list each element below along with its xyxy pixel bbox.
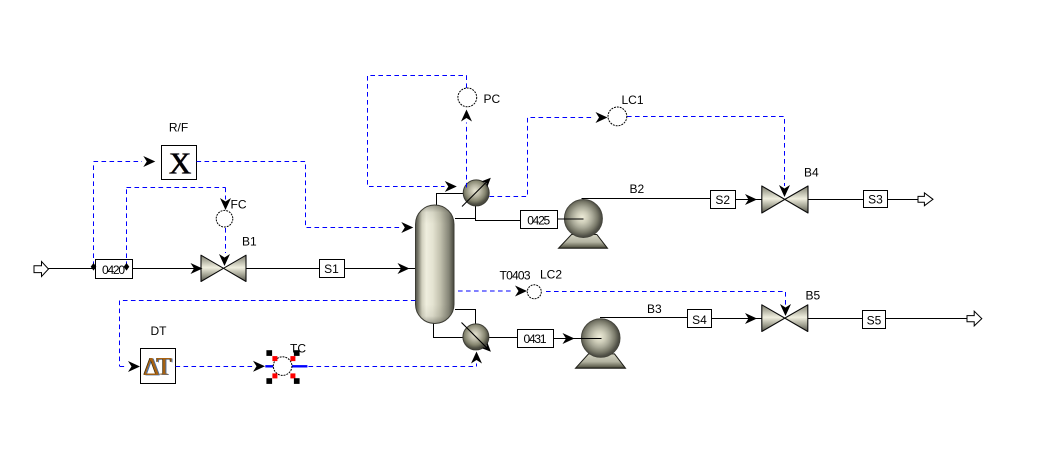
arrow into multiplier R/F <box>143 156 155 167</box>
svg-text:S2: S2 <box>715 193 730 207</box>
wire valve B1 to tag S1 <box>246 268 319 270</box>
signal wire controller PC to condenser <box>368 76 467 187</box>
svg-text:B5: B5 <box>806 289 821 303</box>
tag box 0431 <box>518 330 554 348</box>
tag box S5 <box>863 311 886 329</box>
reboiler duty arrow <box>462 323 489 350</box>
reboiler heat exchanger circle <box>463 324 489 350</box>
svg-text:S1: S1 <box>324 262 339 276</box>
svg-text:LC2: LC2 <box>540 268 562 282</box>
svg-text:B2: B2 <box>630 182 645 196</box>
node tap diamond at 0420 left <box>91 263 97 271</box>
svg-text:TC: TC <box>290 342 306 356</box>
svg-text:X: X <box>169 146 191 181</box>
valve B1 bowtie <box>201 255 246 281</box>
svg-text:DT: DT <box>151 324 168 338</box>
wire S1 to column <box>344 268 416 270</box>
arrow into reboiler bottom from TC <box>471 352 482 364</box>
signal wire multiplier R/F to column <box>197 162 402 228</box>
arrow into controller PC bottom <box>461 110 472 122</box>
wire condenser outlet junction <box>476 206 521 221</box>
wire valve B4 to tag S3 <box>808 199 863 201</box>
wire 0431 to pump P2 <box>553 338 602 340</box>
svg-text:PC: PC <box>484 92 501 106</box>
arrow into valve B1 top from FC <box>219 254 230 266</box>
svg-text:S4: S4 <box>692 313 707 327</box>
svg-text:ΔT: ΔT <box>143 354 172 381</box>
arrow into valve B1 <box>191 263 203 274</box>
arrow into controller TC <box>253 361 265 372</box>
wire valve B5 to tag S5 <box>808 318 863 320</box>
svg-text:S3: S3 <box>868 193 883 207</box>
svg-text:0431: 0431 <box>524 332 547 346</box>
pump P2 sphere <box>581 319 620 358</box>
arrow into column feed <box>398 263 410 274</box>
svg-text:0420: 0420 <box>102 263 125 277</box>
wire S4 to valve B5 <box>712 318 763 320</box>
svg-text:T0403: T0403 <box>500 269 531 283</box>
label delta-T in DT block <box>143 353 173 381</box>
signal wire controller LC2 to valve B5 <box>546 292 786 306</box>
wire pump P1 outlet B2 to tag S2 <box>582 198 711 200</box>
condenser heat exchanger circle <box>463 180 489 206</box>
pump P1 base <box>559 235 608 249</box>
controller circle FC <box>216 210 233 227</box>
svg-text:B1: B1 <box>242 235 257 249</box>
multiplier block R/F <box>162 146 197 180</box>
arrow into valve B4 <box>745 194 757 205</box>
signal wire column to controller LC2 <box>458 290 514 292</box>
node tap diamond at 0420 right <box>124 263 130 271</box>
signal wire DT block to controller TC <box>176 366 254 368</box>
wire 0420 to valve B1 <box>132 268 202 270</box>
arrow into valve B4 top from LC1 <box>779 185 790 197</box>
arrow into condenser from PC <box>445 181 457 192</box>
bottom product outlet block arrow <box>967 311 982 326</box>
tag box 0420 <box>96 260 133 279</box>
wire stub 0431 into pump P2 center <box>553 338 602 340</box>
signal wire 0420 to multiplier R/F <box>94 162 143 267</box>
signal wire controller LC1 to valve B4 <box>627 117 785 187</box>
arrow into pump P2 <box>563 333 575 344</box>
wire reboiler outlet to tag 0431 <box>489 337 517 339</box>
wire boilup return column to reboiler top <box>455 310 476 325</box>
svg-text:B3: B3 <box>647 302 662 316</box>
wire 0425 to pump P1 <box>558 218 584 220</box>
arrowheads on signal lines <box>128 110 791 373</box>
wire S5 to bottom product arrow <box>886 318 968 320</box>
feed inlet block arrow <box>34 262 49 277</box>
arrow into controller LC2 <box>515 286 527 297</box>
svg-text:0425: 0425 <box>527 214 550 228</box>
DT block <box>141 349 176 384</box>
wire column overhead vapor to condenser <box>437 194 464 207</box>
svg-text:R/F: R/F <box>169 121 188 135</box>
valve B5 bowtie <box>762 305 808 332</box>
tag box S4 <box>688 310 712 328</box>
pump P2 base <box>576 354 626 368</box>
arrow into controller FC top <box>220 198 231 210</box>
wire S2 to valve B4 <box>735 199 762 201</box>
signal wire condenser to controller PC <box>466 123 468 188</box>
arrow into DT block <box>128 361 140 372</box>
svg-text:FC: FC <box>231 198 247 212</box>
arrowheads on flow lines <box>191 194 758 344</box>
arrow into controller LC1 <box>596 112 608 123</box>
signal wire controller FC to valve B1 <box>225 228 227 253</box>
wire pump P2 outlet B3 to tag S4 <box>600 317 688 319</box>
label X in multiplier block <box>168 145 192 180</box>
tag box S3 <box>864 191 888 208</box>
controller circle LC2 <box>527 285 541 299</box>
signal wire 0420 to controller FC <box>127 188 226 267</box>
svg-text:S5: S5 <box>867 313 882 327</box>
condenser duty arrow <box>462 180 489 207</box>
top product outlet block arrow <box>918 193 933 206</box>
tag box S2 <box>711 191 736 209</box>
signal wire controller TC to reboiler <box>309 364 477 367</box>
wire feed line into tag 0420 <box>49 268 96 270</box>
signal wire column tray T0403 to DT block <box>120 301 416 367</box>
arrow into valve B5 <box>745 313 757 324</box>
controller circle LC1 <box>608 107 627 126</box>
arrow into column from R/F <box>401 222 413 233</box>
tag box 0425 <box>521 211 558 229</box>
svg-text:LC1: LC1 <box>622 93 644 107</box>
controller circle PC <box>458 88 477 107</box>
column B? distillation tower <box>416 205 455 324</box>
wire reflux return to column <box>455 218 476 220</box>
wire column bottoms to reboiler <box>434 322 464 338</box>
arrow into valve B5 top from LC2 <box>780 304 791 316</box>
wire S3 to top product arrow <box>888 199 918 201</box>
svg-text:B4: B4 <box>804 166 819 180</box>
pump P1 sphere <box>564 200 602 238</box>
tag box S1 <box>320 260 345 278</box>
valve B4 bowtie <box>762 186 808 213</box>
controller TC selected icon <box>265 350 307 384</box>
wire stub 0425 into pump P1 center <box>558 218 584 220</box>
signal wire condenser outlet to controller LC1 <box>490 118 595 197</box>
